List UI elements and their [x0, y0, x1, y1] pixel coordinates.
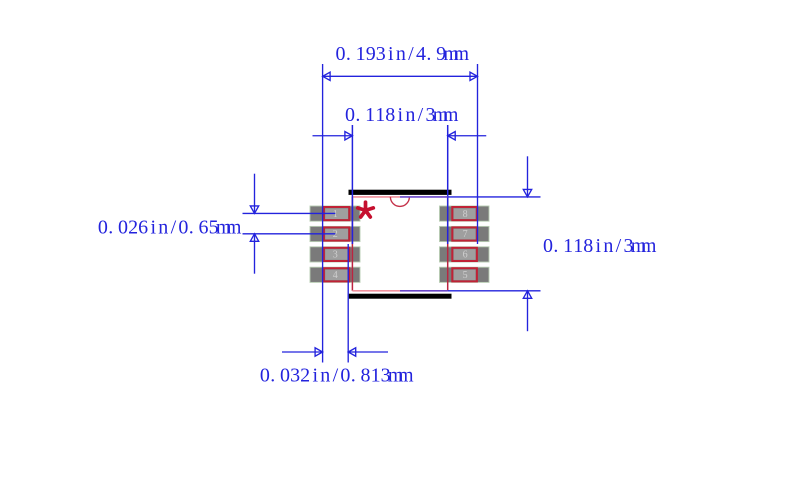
dimension line left [313, 135, 353, 137]
dimension line left [282, 351, 323, 353]
svg-text:2: 2 [333, 229, 338, 240]
dimension 0.026in/0.65mm (pin pitch, left) [243, 174, 336, 274]
svg-text:0.118in/3mm: 0.118in/3mm [543, 235, 657, 257]
extension line top [448, 196, 541, 198]
svg-text:4: 4 [333, 270, 338, 281]
dimension line right [448, 135, 487, 137]
dimension line right [348, 351, 388, 353]
arrow stem bottom [254, 234, 256, 274]
svg-text:0.193in/4.9mm: 0.193in/4.9mm [336, 43, 470, 65]
pad 5 [440, 267, 490, 282]
package bottom body bar (black) [349, 294, 452, 299]
pad 1 [310, 206, 360, 221]
arrow stem top [254, 174, 256, 214]
package body right edge [447, 197, 449, 291]
pad 4 [310, 267, 360, 282]
arrowhead left (pointing right) [345, 132, 353, 140]
package body top edge (pink) [352, 196, 400, 198]
extension line right [347, 244, 349, 363]
leader line pin2 center [243, 233, 336, 235]
extension line bottom [448, 290, 541, 292]
arrowhead up [523, 291, 531, 299]
arrow stem top [527, 156, 529, 197]
extension line left [351, 125, 353, 244]
svg-text:0.026in/0.65mm: 0.026in/0.65mm [98, 217, 242, 239]
pad 2 [310, 226, 360, 241]
dimension 0.118in/3mm (body height, right) [400, 156, 541, 331]
pad 8 [440, 206, 490, 221]
leader line pin1 center [243, 212, 336, 214]
purple overlap bottom [400, 290, 448, 292]
arrowhead up [250, 234, 258, 242]
dimension line [323, 75, 478, 77]
purple overlap top (body pink edge + blue ext line) [400, 196, 448, 198]
extension line right [447, 125, 449, 244]
arrowhead left [323, 72, 331, 80]
pad 6 [440, 247, 490, 262]
package body left edge [351, 197, 353, 291]
package body bottom edge (pink) [352, 290, 400, 292]
extension line left [322, 64, 324, 363]
dimension 0.032in/0.813mm (pad length, bottom) [282, 244, 388, 363]
svg-text:6: 6 [463, 250, 468, 261]
svg-text:3: 3 [333, 250, 338, 261]
svg-text:0.118in/3mm: 0.118in/3mm [345, 104, 459, 126]
dimension 0.118in/3mm (body width, top) [313, 125, 487, 244]
svg-text:0.032in/0.813mm: 0.032in/0.813mm [260, 365, 414, 387]
extension line right [477, 64, 479, 244]
svg-text:5: 5 [463, 270, 468, 281]
pin-1 marker asterisk [358, 202, 374, 217]
pin-1 notch arc [390, 197, 409, 207]
arrowhead (pointing left) [348, 348, 356, 356]
dimension 0.193in/4.9mm (overall width) [323, 64, 478, 363]
pad 3 [310, 247, 360, 262]
svg-text:8: 8 [463, 209, 468, 220]
arrowhead down [250, 206, 258, 214]
arrowhead down [523, 189, 531, 197]
arrowhead right (pointing left) [448, 132, 456, 140]
pad 7 [440, 226, 490, 241]
arrowhead right [470, 72, 478, 80]
arrow stem bottom [527, 291, 529, 331]
svg-text:1: 1 [333, 209, 338, 220]
svg-text:7: 7 [463, 229, 468, 240]
arrowhead (pointing right) [315, 348, 323, 356]
package top body bar (black) [349, 190, 452, 195]
